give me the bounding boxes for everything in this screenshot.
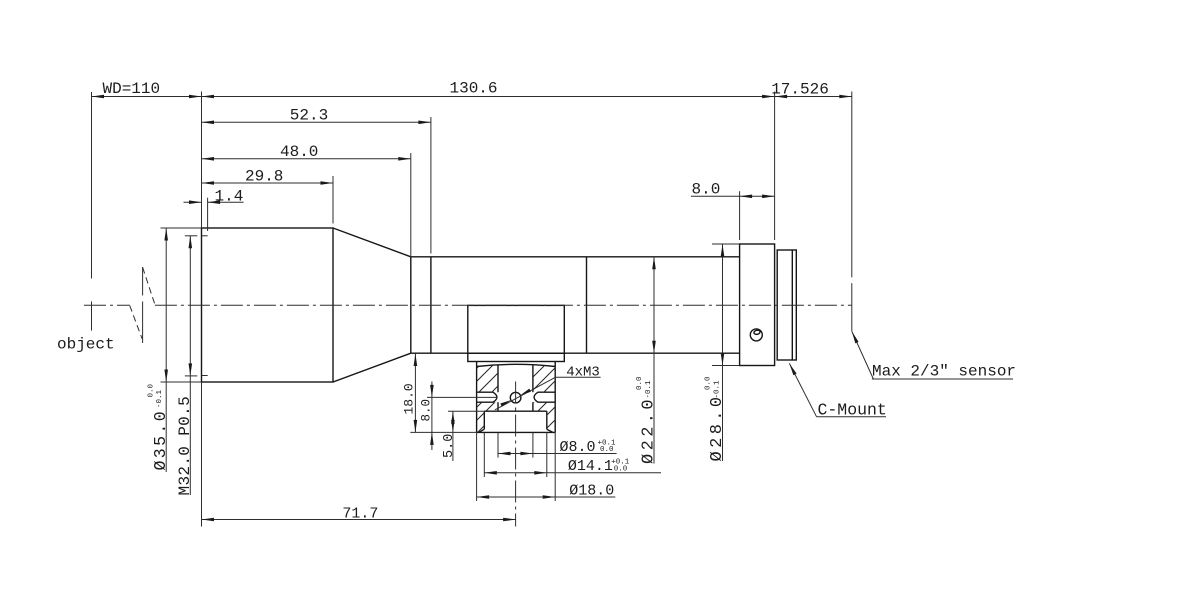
counterbore right wall [546,411,548,429]
svg-text:Ø18.0: Ø18.0 [569,482,614,499]
dim 8.0 hole line [431,382,433,451]
M32 tick bottom body [202,375,208,377]
ext dia8 right [532,432,534,457]
ext dia28 bottom [712,365,740,367]
svg-text:0.0: 0.0 [148,383,156,397]
ext flange face [774,92,776,241]
svg-text:Ø8.0: Ø8.0 [560,439,596,456]
dim 5.0 line [452,411,454,461]
break line upper diagonal [143,267,155,304]
break line lower diagonal [130,306,143,340]
svg-text:M32.0 P0.5: M32.0 P0.5 [176,396,194,496]
svg-text:Ø28.0: Ø28.0 [708,393,727,461]
ext ring left 8.0 [739,191,741,240]
svg-text:5.0: 5.0 [442,434,457,458]
cone bottom edge [333,353,411,382]
counterbore left wall [483,411,485,429]
counterbore top edge [484,410,547,412]
ext bezel 1.4 [207,198,209,231]
ext front face above [201,92,203,229]
rear mount piece [777,250,796,360]
ext dia28 top [712,243,740,245]
svg-text:52.3: 52.3 [290,107,328,125]
leader 4xM3 [495,377,556,410]
svg-text:object: object [57,336,115,354]
dim dia35 line [165,228,167,472]
barrel bottom edge [411,352,740,354]
svg-text:29.8: 29.8 [245,168,283,186]
ext dia18 left [476,432,478,501]
dim dia14.1 line [484,472,661,474]
svg-text:0.0: 0.0 [636,376,644,390]
ext counterbore 5.0 [448,410,484,412]
dim 17.526 arrows [775,95,788,99]
cone top edge [333,228,411,257]
lower mount strip [468,353,565,361]
svg-text:4xM3: 4xM3 [566,365,600,381]
ext dia35 top [161,227,202,229]
dim M32 line [189,236,191,495]
hole vertical centerline [515,382,517,527]
leader Max sensor [852,331,874,379]
svg-text:WD=110: WD=110 [103,80,161,98]
svg-text:0.0: 0.0 [614,465,628,473]
M3 tapped hole circle [510,392,521,403]
ext dia35 bottom [161,381,202,383]
leader C-Mount [789,363,816,417]
svg-text:17.526: 17.526 [771,81,829,99]
section block left wall [476,362,478,433]
M32 tick top body [202,235,208,237]
dim dia8 line [498,453,617,455]
svg-text:18.0: 18.0 [402,383,417,414]
optical axis centerline main [155,304,852,306]
barrel top edge [411,256,740,258]
dim 29.8 line [202,182,334,184]
dim WD=110 arrows [92,95,105,99]
ext 48.0 right [410,153,412,257]
svg-text:Ø22.0: Ø22.0 [640,396,659,464]
dim 52.3 line [202,121,431,123]
dim 8.0 flange line [691,195,775,197]
counterbore left chamfer [479,429,484,432]
bore wall left lower [497,402,499,411]
dim 130.6 arrows [202,95,215,99]
ext dia18 right [554,432,556,501]
dim dia22 line [653,257,655,464]
svg-text:48.0: 48.0 [280,143,318,161]
section hatching [477,366,498,393]
cone end vertical line [410,257,412,353]
M32 tick top left [185,235,198,237]
svg-text:130.6: 130.6 [449,80,497,98]
svg-text:0.0: 0.0 [600,446,614,454]
ext dia14 right [546,432,548,477]
sensor plane line [851,92,853,278]
M3 hole slot right [534,392,555,402]
M32 tick bottom left [185,375,198,377]
svg-text:Ø35.0: Ø35.0 [151,409,170,471]
ext 29.8 right [332,176,334,224]
section block right wall [554,362,556,433]
svg-text:71.7: 71.7 [342,505,378,522]
set screw slot [754,330,761,335]
ext block bottom left [410,431,476,433]
optical axis centerline left [84,304,130,306]
ext 52.3 right [430,117,432,254]
dim 48.0 line [202,158,411,160]
bore wall left upper [497,365,499,392]
svg-text:Max 2/3″ sensor: Max 2/3″ sensor [872,363,1016,381]
M3 hole slot left [477,392,497,402]
ext hole center 8.0 [427,396,496,398]
C-mount ring [740,244,775,366]
dim 18.0 line [414,354,416,433]
section block bottom edge [477,431,556,433]
svg-text:1.4: 1.4 [214,187,243,205]
bore wall right lower [532,402,534,411]
bore wall right upper [532,365,534,392]
svg-text:-0.1: -0.1 [645,380,653,399]
ext dia14 left [483,432,485,477]
lens front cylinder body [202,228,334,382]
set screw circle [750,329,762,341]
barrel seam at 52.3 [430,257,432,353]
svg-text:-0.1: -0.1 [156,389,164,408]
svg-text:-0.1: -0.1 [714,380,722,399]
object plane line [91,92,93,279]
svg-text:8.0: 8.0 [420,399,434,422]
lower box on barrel [468,305,565,353]
barrel seam mid [586,257,588,353]
section block top curve [477,364,556,366]
rear piece inner line [791,250,793,360]
svg-text:8.0: 8.0 [691,181,720,199]
dim dia18 line [477,496,616,498]
dim line top chain [92,96,852,98]
svg-text:0.0: 0.0 [705,376,713,390]
dim 71.7 line [202,519,516,521]
ext dia8 left [497,432,499,457]
ext front face below [201,382,203,527]
break line vertical [142,267,144,296]
dim dia28 line [722,244,724,461]
dim 1.4 lines [184,201,202,203]
svg-text:Ø14.1: Ø14.1 [568,458,613,475]
counterbore right chamfer [547,429,553,432]
